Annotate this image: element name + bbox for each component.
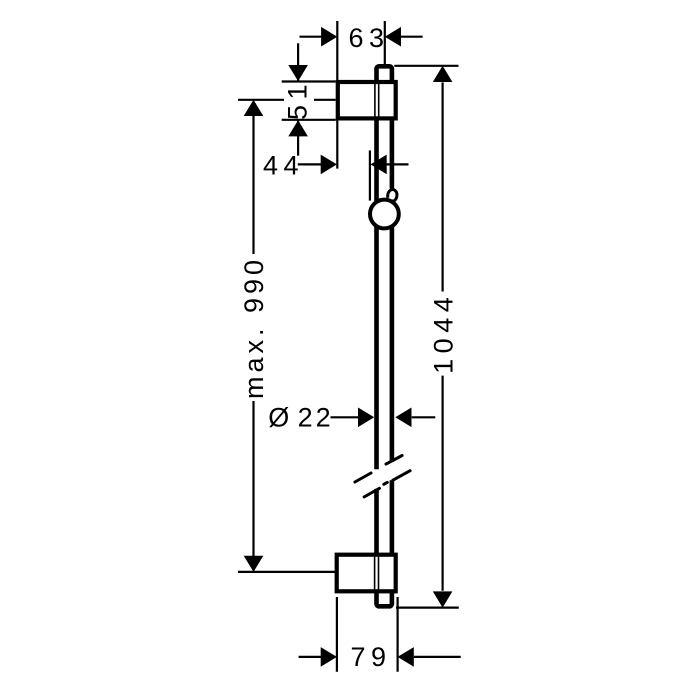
svg-text:22: 22	[298, 403, 334, 433]
svg-text:63: 63	[348, 23, 389, 53]
svg-text:79: 79	[350, 642, 391, 672]
svg-text:1044: 1044	[428, 292, 458, 374]
svg-text:44: 44	[263, 151, 304, 181]
svg-text:51: 51	[283, 79, 313, 120]
svg-text:max. 990: max. 990	[239, 256, 269, 399]
svg-text:Ø: Ø	[268, 403, 289, 433]
